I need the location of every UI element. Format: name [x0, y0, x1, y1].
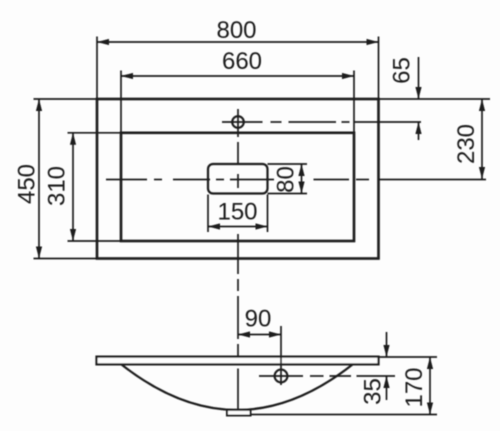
- svg-text:35: 35: [360, 378, 387, 405]
- svg-text:800: 800: [216, 17, 256, 44]
- svg-text:150: 150: [217, 199, 257, 226]
- svg-text:90: 90: [245, 306, 272, 333]
- svg-text:65: 65: [389, 57, 416, 84]
- svg-text:80: 80: [273, 166, 300, 193]
- svg-text:230: 230: [453, 124, 480, 164]
- svg-text:310: 310: [44, 166, 71, 206]
- svg-text:170: 170: [401, 367, 428, 407]
- svg-text:450: 450: [14, 164, 41, 204]
- svg-text:660: 660: [222, 48, 262, 75]
